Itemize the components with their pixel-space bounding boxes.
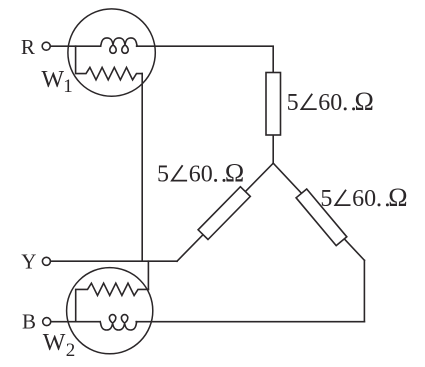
- wire: R line left segment: [51, 45, 101, 47]
- svg-text:W: W: [43, 330, 66, 356]
- terminal Y: [42, 257, 50, 265]
- svg-text:5: 5: [320, 186, 332, 212]
- wire: B terminal to W2 coil: [51, 321, 100, 323]
- wire: right delta branch: [273, 163, 364, 260]
- terminal B: [43, 318, 51, 326]
- svg-text:B: B: [22, 310, 36, 334]
- impedance Z3 box (right diagonal): [296, 189, 347, 246]
- svg-text:Ω: Ω: [388, 183, 407, 212]
- wire: left delta branch: [177, 163, 273, 261]
- svg-text:Ω: Ω: [225, 158, 244, 187]
- wire: right side down: [363, 260, 365, 321]
- svg-text:W: W: [41, 67, 64, 93]
- svg-text:2: 2: [66, 340, 76, 361]
- W2 current coil (inductor): [100, 315, 137, 330]
- wire: bottom B line right part: [136, 321, 364, 323]
- wire: box1 bottom to delta apex: [272, 135, 274, 163]
- wattmeter W1 circle: [68, 9, 155, 96]
- wire: R line right segment down to box1: [137, 46, 274, 72]
- wire: Y line: [51, 260, 177, 262]
- W2 pressure coil (resistor): [76, 283, 149, 322]
- wire: W1 pressure-coil tail down to Y line: [141, 74, 143, 262]
- svg-text:5: 5: [287, 90, 299, 116]
- svg-text:60: 60: [318, 90, 342, 116]
- svg-text:1: 1: [63, 76, 73, 97]
- W1 pressure coil (resistor): [76, 46, 143, 80]
- svg-text:5: 5: [157, 161, 169, 187]
- wire: W2 pressure-coil tail up to Y line: [147, 261, 149, 289]
- svg-text:R: R: [21, 35, 35, 59]
- impedance Z2 box (left diagonal): [198, 187, 250, 240]
- svg-text:Ω: Ω: [355, 87, 374, 116]
- impedance Z1 box (top right, vertical): [266, 73, 281, 136]
- svg-text:60: 60: [352, 186, 376, 212]
- W1 current coil (inductor): [101, 38, 138, 53]
- svg-text:60: 60: [189, 161, 213, 187]
- terminal R: [42, 42, 50, 50]
- svg-text:Y: Y: [21, 249, 36, 273]
- wattmeter W2 circle: [67, 268, 153, 354]
